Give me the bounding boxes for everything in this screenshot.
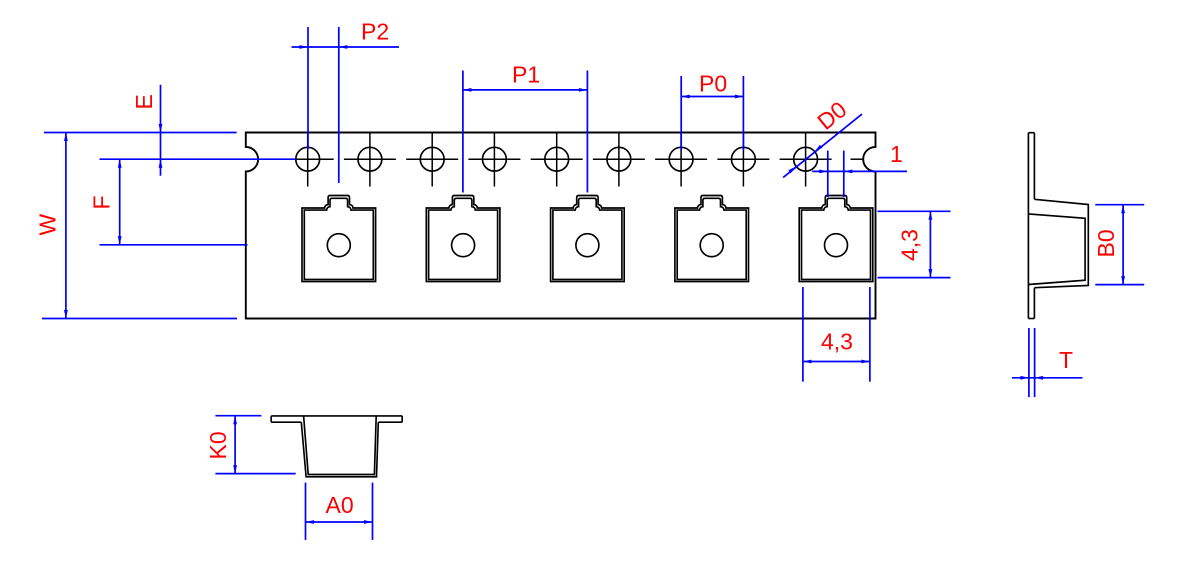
dimension 1 (812, 170, 907, 172)
sprocket hole 2 (358, 147, 382, 171)
sprocket hole 8 (732, 147, 756, 171)
svg-text:D0: D0 (812, 96, 851, 135)
dimension P1 (463, 89, 588, 91)
dimension T (1012, 377, 1083, 379)
component pocket 5 (799, 196, 873, 282)
dimension P0 extension lines (680, 76, 682, 150)
pocket 4 center hole (700, 234, 723, 257)
dimension F extension lines (100, 158, 297, 160)
component pocket 4 (675, 196, 749, 282)
dimension 4,3 (pocket height) (929, 211, 931, 277)
component pocket 3 (551, 196, 625, 282)
carrier tape outline (top view) (246, 133, 876, 319)
svg-text:4,3: 4,3 (897, 229, 923, 261)
dimension D0 leader (783, 114, 862, 177)
side view pocket profile (1034, 199, 1088, 287)
pocket cross-section flange (271, 415, 402, 417)
sprocket hole 7 (669, 147, 693, 171)
pocket 1 center hole (327, 234, 350, 257)
sprocket hole 4 (483, 147, 507, 171)
sprocket hole 5 (545, 147, 569, 171)
sprocket hole 3 centerlines (431, 134, 433, 187)
dimension 4,3 (pocket height) extension lines (878, 210, 951, 212)
svg-text:P0: P0 (699, 71, 727, 97)
dimension P2 (292, 46, 400, 48)
svg-text:F: F (89, 195, 115, 209)
sprocket hole 9 centerlines (805, 134, 807, 187)
edge centerline dashes (851, 158, 864, 160)
sprocket hole 8 centerlines (742, 134, 744, 187)
dimension W extension lines (44, 132, 237, 134)
side view tape strip (1027, 133, 1029, 319)
svg-text:A0: A0 (326, 492, 354, 518)
pocket cross-section cup (301, 422, 378, 477)
dimension B0 extension lines (1095, 204, 1144, 206)
dimension 4,3 (pocket width) extension lines (802, 287, 804, 382)
svg-text:W: W (35, 214, 61, 236)
dimension P0 (681, 96, 743, 98)
svg-text:P1: P1 (512, 62, 540, 88)
svg-text:1: 1 (890, 141, 903, 167)
component pocket 1 (302, 196, 376, 282)
dimension 4,3 (pocket width) (803, 361, 870, 363)
sprocket hole 9 (794, 147, 818, 171)
dimension P1 extension lines (462, 71, 464, 193)
dimension E (160, 85, 162, 176)
dimension K0 extension lines (215, 415, 261, 417)
pocket 2 center hole (452, 234, 475, 257)
svg-text:4,3: 4,3 (821, 329, 853, 355)
dimension A0 (306, 521, 373, 523)
sprocket hole 7 centerlines (680, 134, 682, 187)
svg-text:E: E (131, 94, 157, 109)
sprocket hole 6 (607, 147, 631, 171)
component pocket 2 (426, 196, 500, 282)
dimension T extension lines (1028, 328, 1030, 397)
sprocket hole 4 centerlines (493, 134, 495, 187)
svg-text:T: T (1059, 347, 1073, 373)
svg-text:B0: B0 (1093, 229, 1119, 257)
dimension A0 extension lines (305, 483, 307, 540)
dimension K0 (234, 416, 236, 474)
sprocket hole 3 (420, 147, 444, 171)
pocket 5 center hole (825, 234, 848, 257)
svg-text:K0: K0 (205, 431, 231, 459)
dimension P2 extension lines (307, 27, 309, 149)
sprocket hole 6 centerlines (618, 134, 620, 187)
sprocket hole 2 centerlines (369, 134, 371, 187)
sprocket hole 1 (296, 147, 320, 171)
sprocket hole 1 centerlines (307, 134, 309, 187)
dimension 1 extension lines (827, 151, 829, 197)
svg-text:P2: P2 (361, 19, 389, 45)
sprocket hole 5 centerlines (556, 134, 558, 187)
dimension W (65, 133, 67, 319)
dimension B0 (1122, 205, 1124, 285)
pocket 3 center hole (576, 234, 599, 257)
dimension F (119, 159, 121, 245)
